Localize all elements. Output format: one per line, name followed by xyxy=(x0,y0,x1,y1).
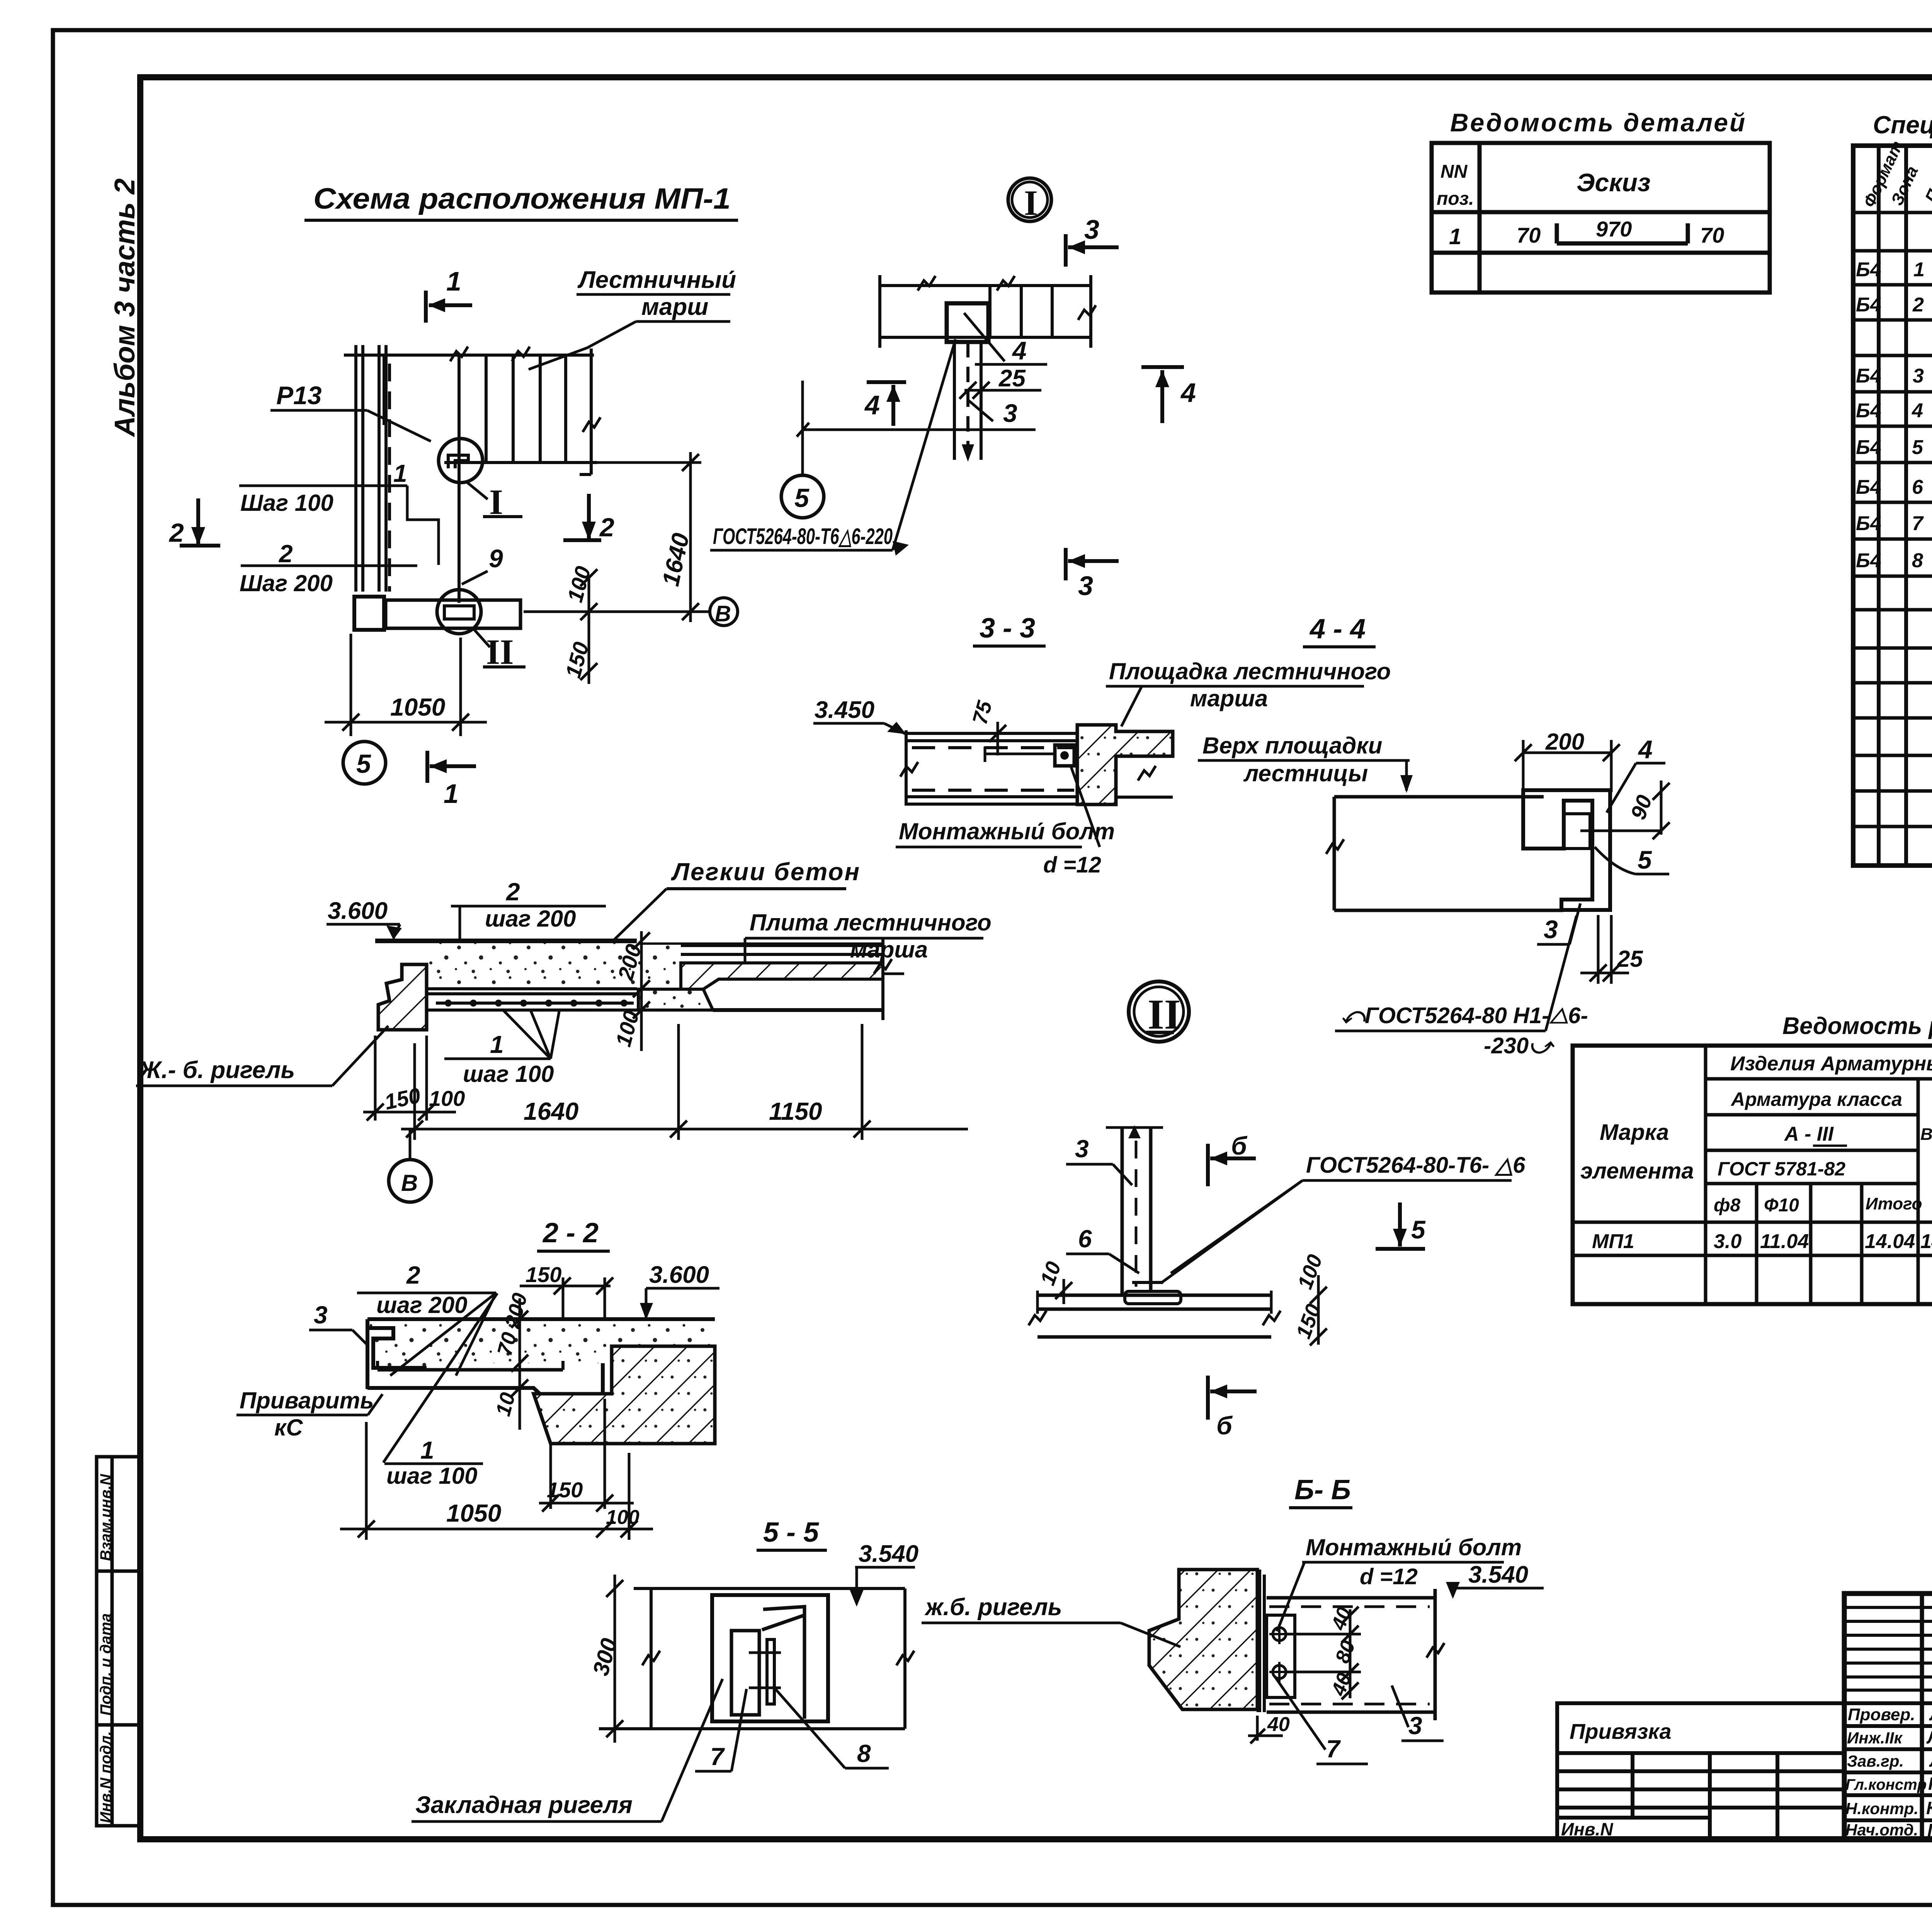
svg-text:1: 1 xyxy=(444,779,459,809)
leader + label 3 xyxy=(968,400,993,421)
svg-text:ГОСТ5264-80-Т6- △6: ГОСТ5264-80-Т6- △6 xyxy=(1306,1153,1526,1178)
svg-text:5: 5 xyxy=(794,483,810,513)
svg-text:25: 25 xyxy=(998,365,1026,392)
stair flight bottom edge xyxy=(444,461,597,464)
svg-text:5: 5 xyxy=(356,749,371,779)
svg-text:Привязка: Привязка xyxy=(1570,1719,1672,1743)
svg-text:2: 2 xyxy=(406,1261,420,1289)
stair treads xyxy=(384,349,591,603)
svg-text:3: 3 xyxy=(1408,1712,1422,1740)
base plate (section II) xyxy=(1037,1291,1271,1337)
plate 7 (5-5) xyxy=(731,1631,759,1715)
leader to label II xyxy=(473,629,490,647)
detail title circle I xyxy=(1008,178,1051,221)
concrete support hatched (3-3) xyxy=(1077,725,1173,804)
big X leaders (2-2) xyxy=(383,1293,497,1463)
svg-text:7: 7 xyxy=(1326,1735,1341,1763)
svg-text:200: 200 xyxy=(1545,729,1584,755)
svg-text:3: 3 xyxy=(1084,214,1099,245)
svg-text:Инв.N подл.: Инв.N подл. xyxy=(97,1731,114,1823)
svg-text:3 - 3: 3 - 3 xyxy=(980,613,1035,644)
svg-text:1640: 1640 xyxy=(524,1097,578,1125)
svg-text:100: 100 xyxy=(429,1086,465,1111)
svg-text:1: 1 xyxy=(490,1031,504,1058)
svg-text:Эскиз: Эскиз xyxy=(1577,168,1651,197)
svg-text:кС: кС xyxy=(274,1415,303,1440)
embedded channel (5-5) xyxy=(712,1595,828,1721)
svg-text:1: 1 xyxy=(1913,259,1925,281)
plate 8 (5-5) xyxy=(767,1639,774,1704)
svg-text:Н.контр.: Н.контр. xyxy=(1845,1799,1918,1818)
svg-text:NN: NN xyxy=(1440,162,1468,182)
axis circle В xyxy=(710,598,738,626)
svg-text:3.600: 3.600 xyxy=(328,898,388,924)
svg-text:б: б xyxy=(1231,1131,1248,1160)
svg-text:Альбом 3 часть 2: Альбом 3 часть 2 xyxy=(109,179,141,437)
wall lines left group xyxy=(356,345,389,592)
landing plate section xyxy=(906,730,1078,806)
svg-text:Спецификация монолитнои́ ж.-Б: Спецификация монолитнои́ ж.-Б. лестнично… xyxy=(1873,111,1932,139)
detail circle II on plan xyxy=(437,590,481,634)
svg-text:Изделия Арматурные: Изделия Арматурные xyxy=(1730,1053,1932,1075)
closure plate (Б-Б) xyxy=(1257,1570,1261,1712)
svg-text:1: 1 xyxy=(1449,224,1461,249)
svg-text:шаг 100: шаг 100 xyxy=(463,1061,554,1087)
svg-text:d =12: d =12 xyxy=(1043,852,1101,878)
dim 1640 vertical xyxy=(524,452,709,622)
svg-text:А - III: А - III xyxy=(1784,1123,1834,1145)
svg-text:14.04: 14.04 xyxy=(1920,1230,1932,1253)
svg-text:3: 3 xyxy=(314,1301,328,1329)
svg-text:Б4: Б4 xyxy=(1856,512,1881,535)
dim 1050 / 100 (2-2) xyxy=(340,1422,653,1540)
svg-text:Закладная ригеля: Закладная ригеля xyxy=(415,1792,633,1818)
svg-text:4: 4 xyxy=(1912,400,1923,422)
svg-text:Монтажныи́ болт: Монтажныи́ болт xyxy=(1306,1534,1522,1560)
svg-text:6: 6 xyxy=(1078,1225,1092,1253)
axis circle 5 (detail I) xyxy=(781,475,824,518)
svg-text:3: 3 xyxy=(1078,571,1093,601)
svg-text:25: 25 xyxy=(1617,946,1643,972)
svg-text:марш: марш xyxy=(641,294,708,320)
svg-text:Плита лестничного: Плита лестничного xyxy=(750,910,992,935)
svg-text:Р13: Р13 xyxy=(276,381,321,410)
plan title underline xyxy=(304,219,738,222)
svg-text:МП1: МП1 xyxy=(1592,1230,1634,1253)
svg-text:2: 2 xyxy=(506,878,520,906)
svg-text:3.450: 3.450 xyxy=(815,697,874,723)
break marks on flight xyxy=(450,347,468,361)
svg-text:Ведомость деталей: Ведомость деталей xyxy=(1450,108,1747,137)
detail title circle II xyxy=(1129,981,1189,1042)
section mark 3 bottom xyxy=(1066,548,1119,580)
svg-text:Инв.N: Инв.N xyxy=(1561,1819,1613,1839)
svg-text:1: 1 xyxy=(446,266,461,296)
svg-text:Лестничныи́: Лестничныи́ xyxy=(577,267,736,293)
bolt 1 xyxy=(1273,1628,1286,1641)
svg-text:2 - 2: 2 - 2 xyxy=(542,1218,599,1248)
svg-text:шаг 200: шаг 200 xyxy=(485,906,576,932)
svg-text:элемента: элемента xyxy=(1580,1158,1694,1184)
svg-text:Зав.гр.: Зав.гр. xyxy=(1847,1752,1904,1770)
axis circle 5 xyxy=(343,742,386,784)
section 1-1 top line xyxy=(375,939,637,943)
channel plate in plan (detail I) xyxy=(947,303,988,342)
svg-text:2: 2 xyxy=(279,540,293,568)
section mark 2 right xyxy=(563,494,601,540)
svg-text:Ж.- б. ригель: Ж.- б. ригель xyxy=(138,1057,295,1083)
svg-text:Провер.: Провер. xyxy=(1848,1705,1915,1724)
svg-text:марша: марша xyxy=(1190,685,1268,711)
svg-text:4 - 4: 4 - 4 xyxy=(1309,614,1366,645)
svg-text:поз.: поз. xyxy=(1437,189,1474,209)
svg-text:марша: марша xyxy=(850,937,928,963)
section mark 1 bottom xyxy=(427,751,476,783)
svg-text:Капустин: Капустин xyxy=(1926,1798,1932,1818)
svg-text:Шаг 100: Шаг 100 xyxy=(240,490,333,516)
svg-text:б: б xyxy=(1216,1411,1233,1440)
svg-text:2: 2 xyxy=(599,513,614,542)
svg-text:3.540: 3.540 xyxy=(1468,1561,1528,1588)
axis circle В (1-1) xyxy=(409,1129,412,1159)
svg-text:ф8: ф8 xyxy=(1714,1195,1740,1216)
4-4 plate body xyxy=(1334,797,1563,910)
svg-text:шаг 200: шаг 200 xyxy=(376,1292,468,1318)
svg-text:Гл.констр: Гл.констр xyxy=(1845,1776,1927,1793)
svg-text:Б4: Б4 xyxy=(1856,400,1881,422)
mounting bolt (3-3) xyxy=(1055,745,1074,766)
svg-text:d =12: d =12 xyxy=(1360,1564,1418,1589)
svg-text:Итого: Итого xyxy=(1866,1194,1922,1213)
svg-text:В: В xyxy=(401,1170,418,1196)
svg-text:970: 970 xyxy=(1596,217,1632,241)
svg-text:1050: 1050 xyxy=(446,1499,501,1527)
svg-text:ГОСТ5264-80-Т6△6-220: ГОСТ5264-80-Т6△6-220 xyxy=(713,524,893,549)
svg-text:Взам.инв.N: Взам.инв.N xyxy=(97,1474,114,1561)
bolt cross marks (5-5) xyxy=(749,1651,781,1654)
svg-text:Верх площадки: Верх площадки xyxy=(1202,733,1382,759)
svg-text:5: 5 xyxy=(1638,845,1652,874)
svg-text:Б4: Б4 xyxy=(1856,259,1881,281)
svg-text:Шаг 200: Шаг 200 xyxy=(240,570,333,596)
spec grid horizontals xyxy=(1853,213,1932,827)
svg-text:Пронин: Пронин xyxy=(1928,1774,1932,1794)
bolt legs below plate xyxy=(954,342,981,460)
channel lip (5-5) xyxy=(762,1607,804,1630)
svg-text:5: 5 xyxy=(1912,436,1923,459)
dim 300 (5-5) xyxy=(606,1575,623,1743)
svg-text:4: 4 xyxy=(864,390,880,420)
svg-text:9: 9 xyxy=(489,544,503,573)
leader + label 4 xyxy=(964,313,1005,361)
stair flight plate right (1-1) xyxy=(638,945,883,963)
detail plate inside circle II xyxy=(444,606,474,619)
svg-text:1050: 1050 xyxy=(390,693,445,721)
svg-text:Всего: Всего xyxy=(1920,1125,1932,1144)
dims 100 150 (section II right) xyxy=(1310,1275,1327,1345)
bolt axis lines xyxy=(1287,1633,1361,1636)
svg-text:Б4: Б4 xyxy=(1856,436,1881,459)
light concrete body (dotted) xyxy=(427,943,637,989)
svg-text:4: 4 xyxy=(1180,378,1196,408)
svg-text:3: 3 xyxy=(1075,1135,1089,1163)
steel table verticals xyxy=(1706,1046,1932,1304)
svg-text:4: 4 xyxy=(1012,336,1027,365)
plate bottom (2-2) xyxy=(367,1363,603,1396)
section mark 4 right (arrow up) xyxy=(1141,367,1184,423)
rebar callout line 1 шаг 100 xyxy=(239,485,407,487)
svg-text:Инж.IIк: Инж.IIк xyxy=(1847,1729,1903,1747)
svg-text:Б- Б: Б- Б xyxy=(1294,1475,1351,1505)
landing plate bottom structure xyxy=(427,989,637,1010)
bracket plate (Б-Б) xyxy=(1267,1589,1435,1720)
upper small revision rows xyxy=(1844,1607,1932,1690)
svg-text:Ведомость расхода стали на: Ведомость расхода стали на один элемент,… xyxy=(1782,1013,1932,1039)
svg-text:Монтажныи́ болт: Монтажныи́ болт xyxy=(899,818,1115,844)
section mark 2 left xyxy=(180,498,220,546)
svg-text:Площадка лестничного: Площадка лестничного xyxy=(1109,658,1391,684)
dims 10 200 rotated (2-2) xyxy=(511,1298,528,1430)
svg-text:Лазарева: Лазарева xyxy=(1926,1727,1932,1747)
steel table outline xyxy=(1573,1046,1932,1304)
spec grid verticals xyxy=(1853,146,1932,866)
bolt square (4-4) xyxy=(1564,814,1590,849)
svg-text:Ф10: Ф10 xyxy=(1764,1195,1799,1216)
svg-text:7: 7 xyxy=(1912,512,1924,535)
svg-text:1: 1 xyxy=(420,1436,434,1464)
svg-text:Легкии бетон: Легкии бетон xyxy=(671,858,861,886)
4-4 channel profile xyxy=(1523,790,1610,910)
svg-text:8: 8 xyxy=(857,1740,871,1767)
inner plate with bolts (Б-Б) xyxy=(1267,1615,1295,1697)
svg-text:70: 70 xyxy=(1700,223,1724,247)
svg-text:Схема расположения МП-1: Схема расположения МП-1 xyxy=(313,182,731,215)
section mark 4 left (arrow up) xyxy=(867,382,906,426)
ж.б. ригель hatched (1-1 left) xyxy=(378,964,427,1030)
landing left anchor square xyxy=(354,597,384,630)
svg-text:Б4: Б4 xyxy=(1856,294,1881,316)
svg-text:Арматура класса: Арматура класса xyxy=(1730,1088,1902,1110)
rebar dots xyxy=(445,1000,628,1007)
svg-text:2: 2 xyxy=(168,518,184,548)
svg-text:70: 70 xyxy=(1517,223,1541,247)
svg-text:5 - 5: 5 - 5 xyxy=(763,1517,819,1548)
dims 40 80 40 (Б-Б) xyxy=(1342,1607,1359,1699)
svg-text:1: 1 xyxy=(393,459,407,487)
svg-text:3.600: 3.600 xyxy=(649,1262,709,1288)
rebar callout line 2 шаг 200 xyxy=(241,565,417,567)
section 2-2 concrete slab xyxy=(367,1319,715,1368)
svg-text:ГОСТ 5781-82: ГОСТ 5781-82 xyxy=(1718,1158,1845,1180)
rebar line (2-2) xyxy=(378,1368,563,1372)
leader to label I xyxy=(466,481,488,499)
svg-text:В: В xyxy=(715,601,731,626)
table grid xyxy=(1432,143,1770,293)
section mark 5 right (arrow down) xyxy=(1376,1202,1425,1249)
svg-text:6: 6 xyxy=(1912,476,1923,498)
section mark б bottom xyxy=(1208,1376,1257,1420)
main rows xyxy=(1844,1653,1932,1820)
svg-text:Б4: Б4 xyxy=(1856,476,1881,498)
section mark б top xyxy=(1208,1144,1256,1186)
svg-text:Подп. и дата: Подп. и дата xyxy=(97,1613,114,1716)
svg-text:ж.б. ригель: ж.б. ригель xyxy=(924,1594,1062,1621)
svg-text:3.0: 3.0 xyxy=(1714,1230,1742,1253)
svg-text:шаг 100: шаг 100 xyxy=(386,1463,478,1489)
section II: channel post xyxy=(1106,1126,1163,1295)
svg-text:Нач.отд.: Нач.отд. xyxy=(1845,1821,1918,1839)
svg-text:3.540: 3.540 xyxy=(859,1541,918,1567)
svg-text:5: 5 xyxy=(1411,1215,1426,1244)
svg-text:лестницы: лестницы xyxy=(1243,760,1368,786)
axis line up from circle 5 xyxy=(801,381,804,475)
dim 1640 / 1150 bottom (1-1) xyxy=(401,1024,968,1140)
svg-text:3: 3 xyxy=(1003,399,1017,427)
ригель concrete hatched (Б-Б) xyxy=(1149,1570,1257,1709)
svg-text:Б4: Б4 xyxy=(1856,365,1881,387)
svg-text:3: 3 xyxy=(1913,365,1924,387)
svg-text:-230⤻: -230⤻ xyxy=(1484,1033,1555,1058)
detail circle I on plan xyxy=(439,439,483,483)
section mark 1 top xyxy=(426,291,472,323)
svg-text:150: 150 xyxy=(526,1262,561,1287)
svg-text:I: I xyxy=(1024,183,1038,223)
5-5 view boundary xyxy=(599,1588,905,1729)
stair flight top edge xyxy=(344,354,594,357)
steel table horizontals xyxy=(1573,1079,1932,1255)
svg-text:Б4: Б4 xyxy=(1856,549,1881,572)
svg-text:8: 8 xyxy=(1912,549,1923,572)
svg-text:4: 4 xyxy=(1638,735,1653,764)
left stamp boxes xyxy=(97,1457,140,1826)
step glyph inside circle I xyxy=(448,455,468,468)
svg-text:Марка: Марка xyxy=(1600,1120,1669,1145)
svg-text:Письман: Письман xyxy=(1927,1820,1932,1840)
svg-text:40: 40 xyxy=(1267,1713,1290,1736)
flight plate line right xyxy=(1116,796,1173,799)
label Лестничный марш xyxy=(529,267,736,369)
svg-text:150: 150 xyxy=(547,1478,583,1502)
dim 100 150 right small xyxy=(580,569,597,684)
svg-text:7: 7 xyxy=(710,1743,725,1770)
bolt 2 xyxy=(1273,1665,1286,1679)
svg-text:100: 100 xyxy=(606,1506,639,1529)
dim 1050 bottom xyxy=(325,634,487,736)
ригель hatched (2-2) xyxy=(534,1346,715,1444)
section mark 3 top xyxy=(1066,234,1119,267)
svg-text:11.04: 11.04 xyxy=(1760,1230,1809,1253)
svg-text:14.04: 14.04 xyxy=(1865,1230,1915,1253)
dim 200/100 vertical (1-1 right) xyxy=(633,931,650,1051)
svg-text:Приварить: Приварить xyxy=(240,1388,374,1413)
svg-text:2: 2 xyxy=(1912,294,1924,316)
svg-text:3: 3 xyxy=(1544,915,1558,944)
landing plate in plan xyxy=(386,600,520,628)
plan fragment of detail I: top chord xyxy=(880,275,1091,348)
svg-text:1150: 1150 xyxy=(769,1097,822,1125)
